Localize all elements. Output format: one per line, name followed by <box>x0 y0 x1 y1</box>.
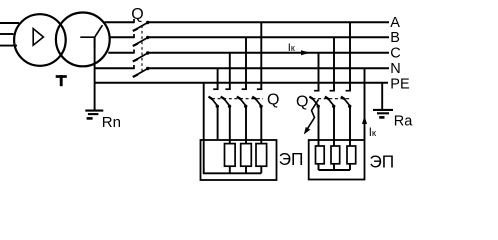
group 2: wires switches to resistors <box>318 107 320 146</box>
switch Q group1 pole B <box>237 89 248 108</box>
switch Q group2 linkage dashed <box>313 98 352 100</box>
group 1: wires switches to resistors <box>217 107 219 140</box>
wire neutral drop from wye center to ground <box>94 37 96 110</box>
svg-text:Iк: Iк <box>288 42 295 54</box>
wire resistor bottoms to bus 2 <box>318 164 320 170</box>
svg-text:ЭП: ЭП <box>279 149 304 169</box>
bus B wire (left of switch) <box>111 36 135 38</box>
bus N wire (right of switch) <box>148 67 389 69</box>
switch Q group2 pole B <box>325 91 336 108</box>
ground Rn symbol <box>85 110 103 112</box>
transformer T primary winding circle <box>14 14 66 66</box>
group 2: A drop wire <box>349 22 351 91</box>
bus N wire (left of switch) <box>95 67 134 69</box>
resistor load 1-1 <box>225 144 236 167</box>
wire HV stub 1 (left input) <box>0 22 19 24</box>
group 1: PE drop wire to load box <box>203 83 205 174</box>
group 1: B drop wire <box>245 37 247 90</box>
switch Q pole N <box>133 65 150 77</box>
wye symbol inside secondary <box>80 25 102 48</box>
Ik arrow on bus C <box>301 50 310 55</box>
bus PE wire <box>95 82 388 84</box>
bus C wire (right of switch) <box>148 52 389 54</box>
wire load bus 1 <box>203 172 261 174</box>
switch Q pole C <box>133 50 150 62</box>
group 2: N wire to enclosure <box>364 68 366 140</box>
svg-text:Rn: Rn <box>102 114 121 131</box>
resistor load 2-1 <box>316 146 325 164</box>
switch Q group1 linkage dashed <box>212 98 263 100</box>
bus C wire (left of switch) <box>108 52 134 54</box>
svg-text:Ra: Ra <box>394 114 413 130</box>
label T <box>56 75 67 78</box>
resistor load 1-3 <box>256 144 267 167</box>
svg-text:Iк: Iк <box>369 127 377 139</box>
wire load bus 2 <box>319 169 351 171</box>
svg-text:Q: Q <box>296 93 308 110</box>
svg-text:A: A <box>390 15 400 31</box>
switch Q group1 pole C <box>221 89 232 108</box>
switch Q group1 pole A <box>252 89 262 108</box>
switch Q group2 pole A <box>341 91 352 108</box>
Ik up arrow on N wire <box>362 116 367 125</box>
delta symbol inside primary <box>33 29 43 46</box>
bus A wire (right of switch) <box>148 21 389 23</box>
svg-text:PE: PE <box>390 76 410 92</box>
wire PE drop to Ra ground <box>381 83 383 110</box>
svg-text:B: B <box>390 30 400 46</box>
group 1: A drop wire <box>260 22 262 90</box>
load box 2 (ЭП enclosure) <box>309 140 365 180</box>
svg-text:ЭП: ЭП <box>369 152 394 172</box>
group 2: C drop wire <box>318 53 320 92</box>
group 1: N drop wire <box>217 68 219 90</box>
switch Q linkage dashed <box>141 26 143 73</box>
bus A wire (left of switch) <box>105 21 135 23</box>
svg-text:Q: Q <box>267 92 279 109</box>
switch Q group1 pole N <box>209 89 220 108</box>
resistor load 2-3 <box>347 146 356 164</box>
resistor load 1-2 <box>241 144 252 167</box>
resistor load 2-2 <box>331 146 340 164</box>
transformer T secondary winding circle <box>56 13 110 67</box>
svg-text:N: N <box>390 61 400 77</box>
switch Q group2 pole C <box>309 91 320 108</box>
wire HV stub 3 (left input) <box>0 45 17 47</box>
wire HV stub 2 (left input) <box>0 33 14 35</box>
lightning fault arrow <box>307 100 319 130</box>
svg-text:C: C <box>390 46 400 62</box>
switch Q pole A <box>133 19 150 31</box>
wire resistor bottoms to bus <box>229 166 231 173</box>
group 1: C drop wire <box>229 53 231 90</box>
switch Q pole B <box>133 34 150 46</box>
load box 1 (ЭП enclosure) <box>201 140 277 180</box>
ground Ra symbol <box>373 109 393 111</box>
group 2: B drop wire <box>333 37 335 91</box>
bus B wire (right of switch) <box>148 36 389 38</box>
